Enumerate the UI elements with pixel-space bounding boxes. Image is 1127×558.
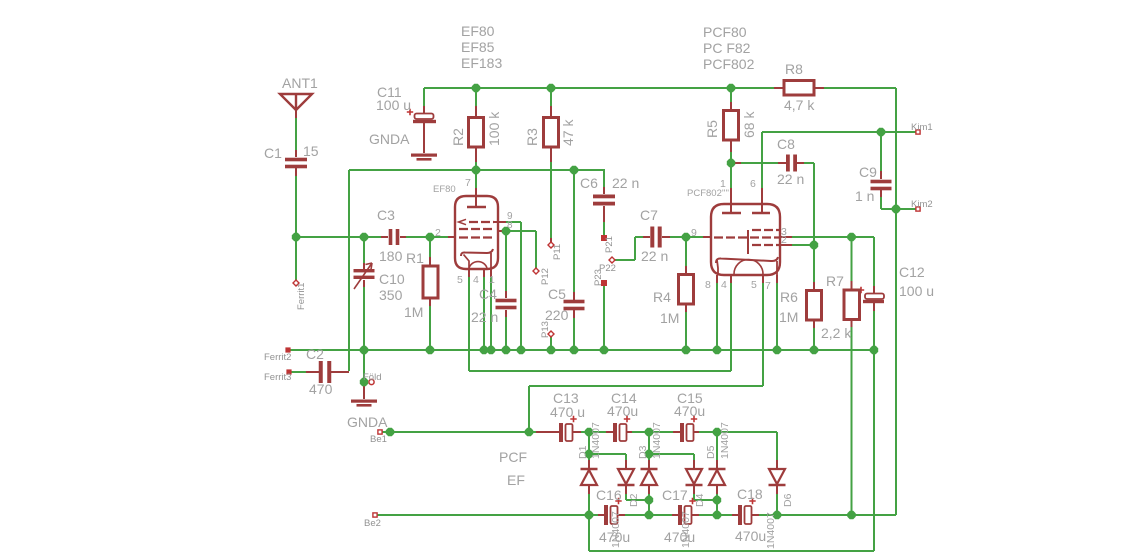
svg-text:100 u: 100 u bbox=[899, 283, 934, 299]
svg-text:PCF802: PCF802 bbox=[703, 56, 755, 72]
svg-text:Ferrit2: Ferrit2 bbox=[264, 352, 291, 363]
svg-text:5: 5 bbox=[457, 274, 463, 286]
svg-text:Kim1: Kim1 bbox=[911, 122, 933, 133]
svg-text:1M: 1M bbox=[404, 304, 423, 320]
svg-text:1N4007: 1N4007 bbox=[651, 422, 663, 459]
svg-text:R4: R4 bbox=[653, 289, 671, 305]
svg-text:8: 8 bbox=[507, 220, 513, 231]
svg-text:D3: D3 bbox=[637, 445, 649, 459]
svg-text:C7: C7 bbox=[640, 207, 658, 223]
svg-text:PC F82: PC F82 bbox=[703, 40, 751, 56]
svg-text:EF80: EF80 bbox=[433, 184, 456, 195]
svg-text:P11: P11 bbox=[552, 244, 563, 260]
svg-text:1M: 1M bbox=[660, 310, 679, 326]
svg-text:Be1: Be1 bbox=[370, 434, 387, 445]
svg-text:22 n: 22 n bbox=[471, 309, 498, 325]
svg-text:180: 180 bbox=[379, 248, 403, 264]
svg-text:7: 7 bbox=[465, 177, 471, 189]
svg-text:R8: R8 bbox=[785, 61, 803, 77]
svg-text:22 n: 22 n bbox=[777, 171, 804, 187]
svg-text:7: 7 bbox=[765, 280, 771, 292]
svg-text:100 u: 100 u bbox=[376, 97, 411, 113]
svg-text:C6: C6 bbox=[580, 175, 598, 191]
svg-text:R6: R6 bbox=[780, 289, 798, 305]
svg-text:R1: R1 bbox=[406, 250, 424, 266]
svg-text:EF85: EF85 bbox=[461, 39, 495, 55]
svg-text:100 k: 100 k bbox=[486, 111, 502, 146]
svg-text:Föld: Föld bbox=[363, 372, 381, 383]
svg-text:C3: C3 bbox=[377, 207, 395, 223]
svg-text:4,7 k: 4,7 k bbox=[784, 97, 815, 113]
svg-text:15: 15 bbox=[303, 143, 319, 159]
svg-text:470u: 470u bbox=[607, 403, 638, 419]
svg-text:6: 6 bbox=[750, 178, 756, 190]
svg-text:68 k: 68 k bbox=[741, 111, 757, 138]
svg-text:47 k: 47 k bbox=[560, 119, 576, 146]
svg-text:220: 220 bbox=[545, 307, 569, 323]
svg-text:D1: D1 bbox=[577, 445, 589, 459]
svg-text:470 u: 470 u bbox=[550, 404, 585, 420]
svg-text:1N4007: 1N4007 bbox=[765, 512, 777, 549]
svg-text:C4: C4 bbox=[479, 286, 497, 302]
svg-text:470: 470 bbox=[309, 381, 333, 397]
svg-text:8: 8 bbox=[705, 279, 711, 291]
svg-text:C5: C5 bbox=[548, 286, 566, 302]
svg-text:C9: C9 bbox=[859, 164, 877, 180]
svg-text:R5: R5 bbox=[704, 120, 720, 138]
svg-text:R3: R3 bbox=[524, 128, 540, 146]
svg-text:22 n: 22 n bbox=[612, 175, 639, 191]
svg-text:1 n: 1 n bbox=[855, 188, 874, 204]
svg-text:GNDA: GNDA bbox=[347, 414, 388, 430]
svg-text:ANT1: ANT1 bbox=[282, 75, 318, 91]
svg-text:1: 1 bbox=[720, 178, 726, 190]
svg-text:22 n: 22 n bbox=[641, 248, 668, 264]
svg-text:D2: D2 bbox=[628, 493, 640, 507]
svg-text:R7: R7 bbox=[826, 273, 844, 289]
svg-text:P13: P13 bbox=[540, 321, 551, 338]
svg-text:D4: D4 bbox=[694, 493, 706, 507]
svg-text:R2: R2 bbox=[450, 128, 466, 146]
svg-text:470u: 470u bbox=[674, 403, 705, 419]
svg-text:GNDA: GNDA bbox=[369, 131, 410, 147]
svg-text:Kim2: Kim2 bbox=[911, 199, 933, 210]
svg-text:C10: C10 bbox=[379, 271, 405, 287]
svg-text:9: 9 bbox=[691, 227, 697, 239]
svg-text:EF80: EF80 bbox=[461, 23, 495, 39]
svg-text:1M: 1M bbox=[779, 309, 798, 325]
svg-text:C12: C12 bbox=[899, 264, 925, 280]
svg-text:PCF: PCF bbox=[499, 449, 527, 465]
svg-text:C18: C18 bbox=[737, 486, 763, 502]
svg-text:2: 2 bbox=[781, 234, 787, 246]
svg-text:1: 1 bbox=[489, 274, 495, 286]
svg-text:C8: C8 bbox=[777, 136, 795, 152]
svg-text:C1: C1 bbox=[264, 145, 282, 161]
svg-text:D6: D6 bbox=[782, 493, 794, 507]
svg-text:4: 4 bbox=[473, 274, 479, 286]
svg-text:350: 350 bbox=[379, 287, 403, 303]
svg-text:4: 4 bbox=[721, 279, 727, 291]
svg-text:D5: D5 bbox=[705, 445, 717, 459]
svg-text:C17: C17 bbox=[662, 487, 688, 503]
svg-text:Ferrit3: Ferrit3 bbox=[264, 372, 291, 383]
svg-text:C2: C2 bbox=[306, 346, 324, 362]
svg-text:Ferrit1: Ferrit1 bbox=[296, 283, 307, 310]
svg-text:EF183: EF183 bbox=[461, 55, 502, 71]
svg-text:EF: EF bbox=[507, 472, 525, 488]
svg-text:2,2 k: 2,2 k bbox=[821, 325, 852, 341]
svg-text:P21: P21 bbox=[604, 236, 615, 253]
svg-text:1N4007: 1N4007 bbox=[590, 422, 602, 459]
svg-text:1N4007: 1N4007 bbox=[719, 422, 731, 459]
svg-text:470u: 470u bbox=[735, 528, 766, 544]
svg-text:1N4007: 1N4007 bbox=[680, 511, 692, 548]
svg-text:1N4007: 1N4007 bbox=[610, 511, 622, 548]
svg-text:C16: C16 bbox=[596, 487, 622, 503]
svg-text:P12: P12 bbox=[540, 268, 551, 285]
svg-text:5: 5 bbox=[751, 279, 757, 291]
svg-text:PCF80: PCF80 bbox=[703, 24, 747, 40]
svg-text:P23: P23 bbox=[593, 269, 604, 286]
svg-text:Be2: Be2 bbox=[364, 518, 381, 529]
svg-text:2: 2 bbox=[435, 227, 441, 239]
